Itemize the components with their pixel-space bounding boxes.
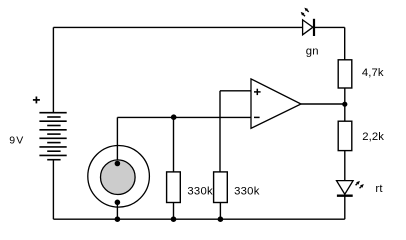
LED D2 emission arrow 2 [360,184,364,188]
node R2 bottom junction [218,216,224,222]
op-amp U1 [251,79,301,128]
svg-text:330k: 330k [234,186,260,198]
node sensor bottom contact [115,200,121,206]
wire LED rt cathode to bottom rail [344,196,346,220]
wire R2 top riser [219,91,221,172]
svg-text:330k: 330k [187,186,213,198]
LED D2 cathode bar [337,194,353,196]
wire inverting input (sensor line) [117,116,251,118]
svg-text:rt: rt [375,183,383,195]
node output junction [342,102,347,107]
node sensor bottom rail junction [115,216,121,222]
wire op-amp output [301,103,345,105]
wire R1 top [173,117,175,171]
wire top rail left segment [53,26,302,28]
svg-text:2,2k: 2,2k [362,131,384,143]
resistor R4 2,2k [338,121,352,150]
wire top rail right segment [314,26,345,28]
LED D1 cathode bar [313,19,315,36]
wire left rail lower (battery - to bottom rail) [52,160,54,220]
wire R2 bottom [219,203,221,220]
svg-text:gn: gn [306,46,319,58]
battery BT1 9V [39,113,66,160]
op-amp plus input marking [254,89,261,95]
wire R4 bottom to LED rt [344,151,346,181]
resistor R3 4,7k [338,60,352,88]
LED D2 emission arrow 1 [356,181,360,185]
wire R3 bottom to node out [344,88,346,121]
LED D1 emission arrow 1 [301,12,305,16]
wire non-inverting input [220,90,251,92]
wire right rail top (corner to R3) [344,27,346,59]
wire sensor top drop [116,117,118,163]
op-amp minus input marking [254,116,260,118]
svg-text:4,7k: 4,7k [362,67,384,79]
sensor inner disc electrode [101,160,136,195]
LED D2 red: triangle [337,181,354,195]
wire R1 bottom [173,203,175,220]
node sensor top contact [115,161,121,167]
LED D1 green: triangle [303,20,313,35]
svg-text:9 V: 9 V [9,134,23,146]
sensor outer ring electrode [88,146,150,208]
wire left rail upper (battery + to top rail) [52,27,54,112]
resistor R1 330k [167,172,181,203]
battery plus sign [33,97,40,104]
LED D1 emission arrow 2 [304,8,308,12]
node R1 bottom junction [171,216,177,222]
node R1 top junction [171,114,177,120]
resistor R2 330k [214,172,228,203]
wire bottom rail [53,218,344,220]
wire sensor bottom to rail [116,202,118,219]
